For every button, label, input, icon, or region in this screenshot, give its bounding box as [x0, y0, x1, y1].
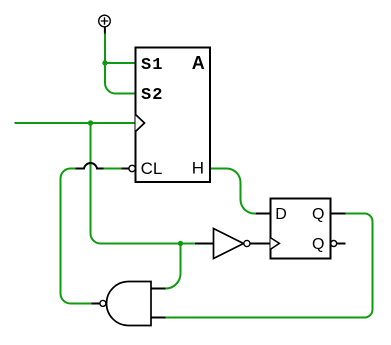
svg-text:H: H	[192, 159, 204, 178]
svg-text:CL: CL	[141, 159, 163, 178]
svg-text:A: A	[192, 53, 205, 73]
svg-text:Q: Q	[312, 236, 324, 253]
svg-text:S1: S1	[141, 56, 164, 75]
svg-text:S2: S2	[141, 86, 164, 105]
svg-text:Q: Q	[312, 206, 324, 223]
svg-text:D: D	[275, 206, 287, 223]
